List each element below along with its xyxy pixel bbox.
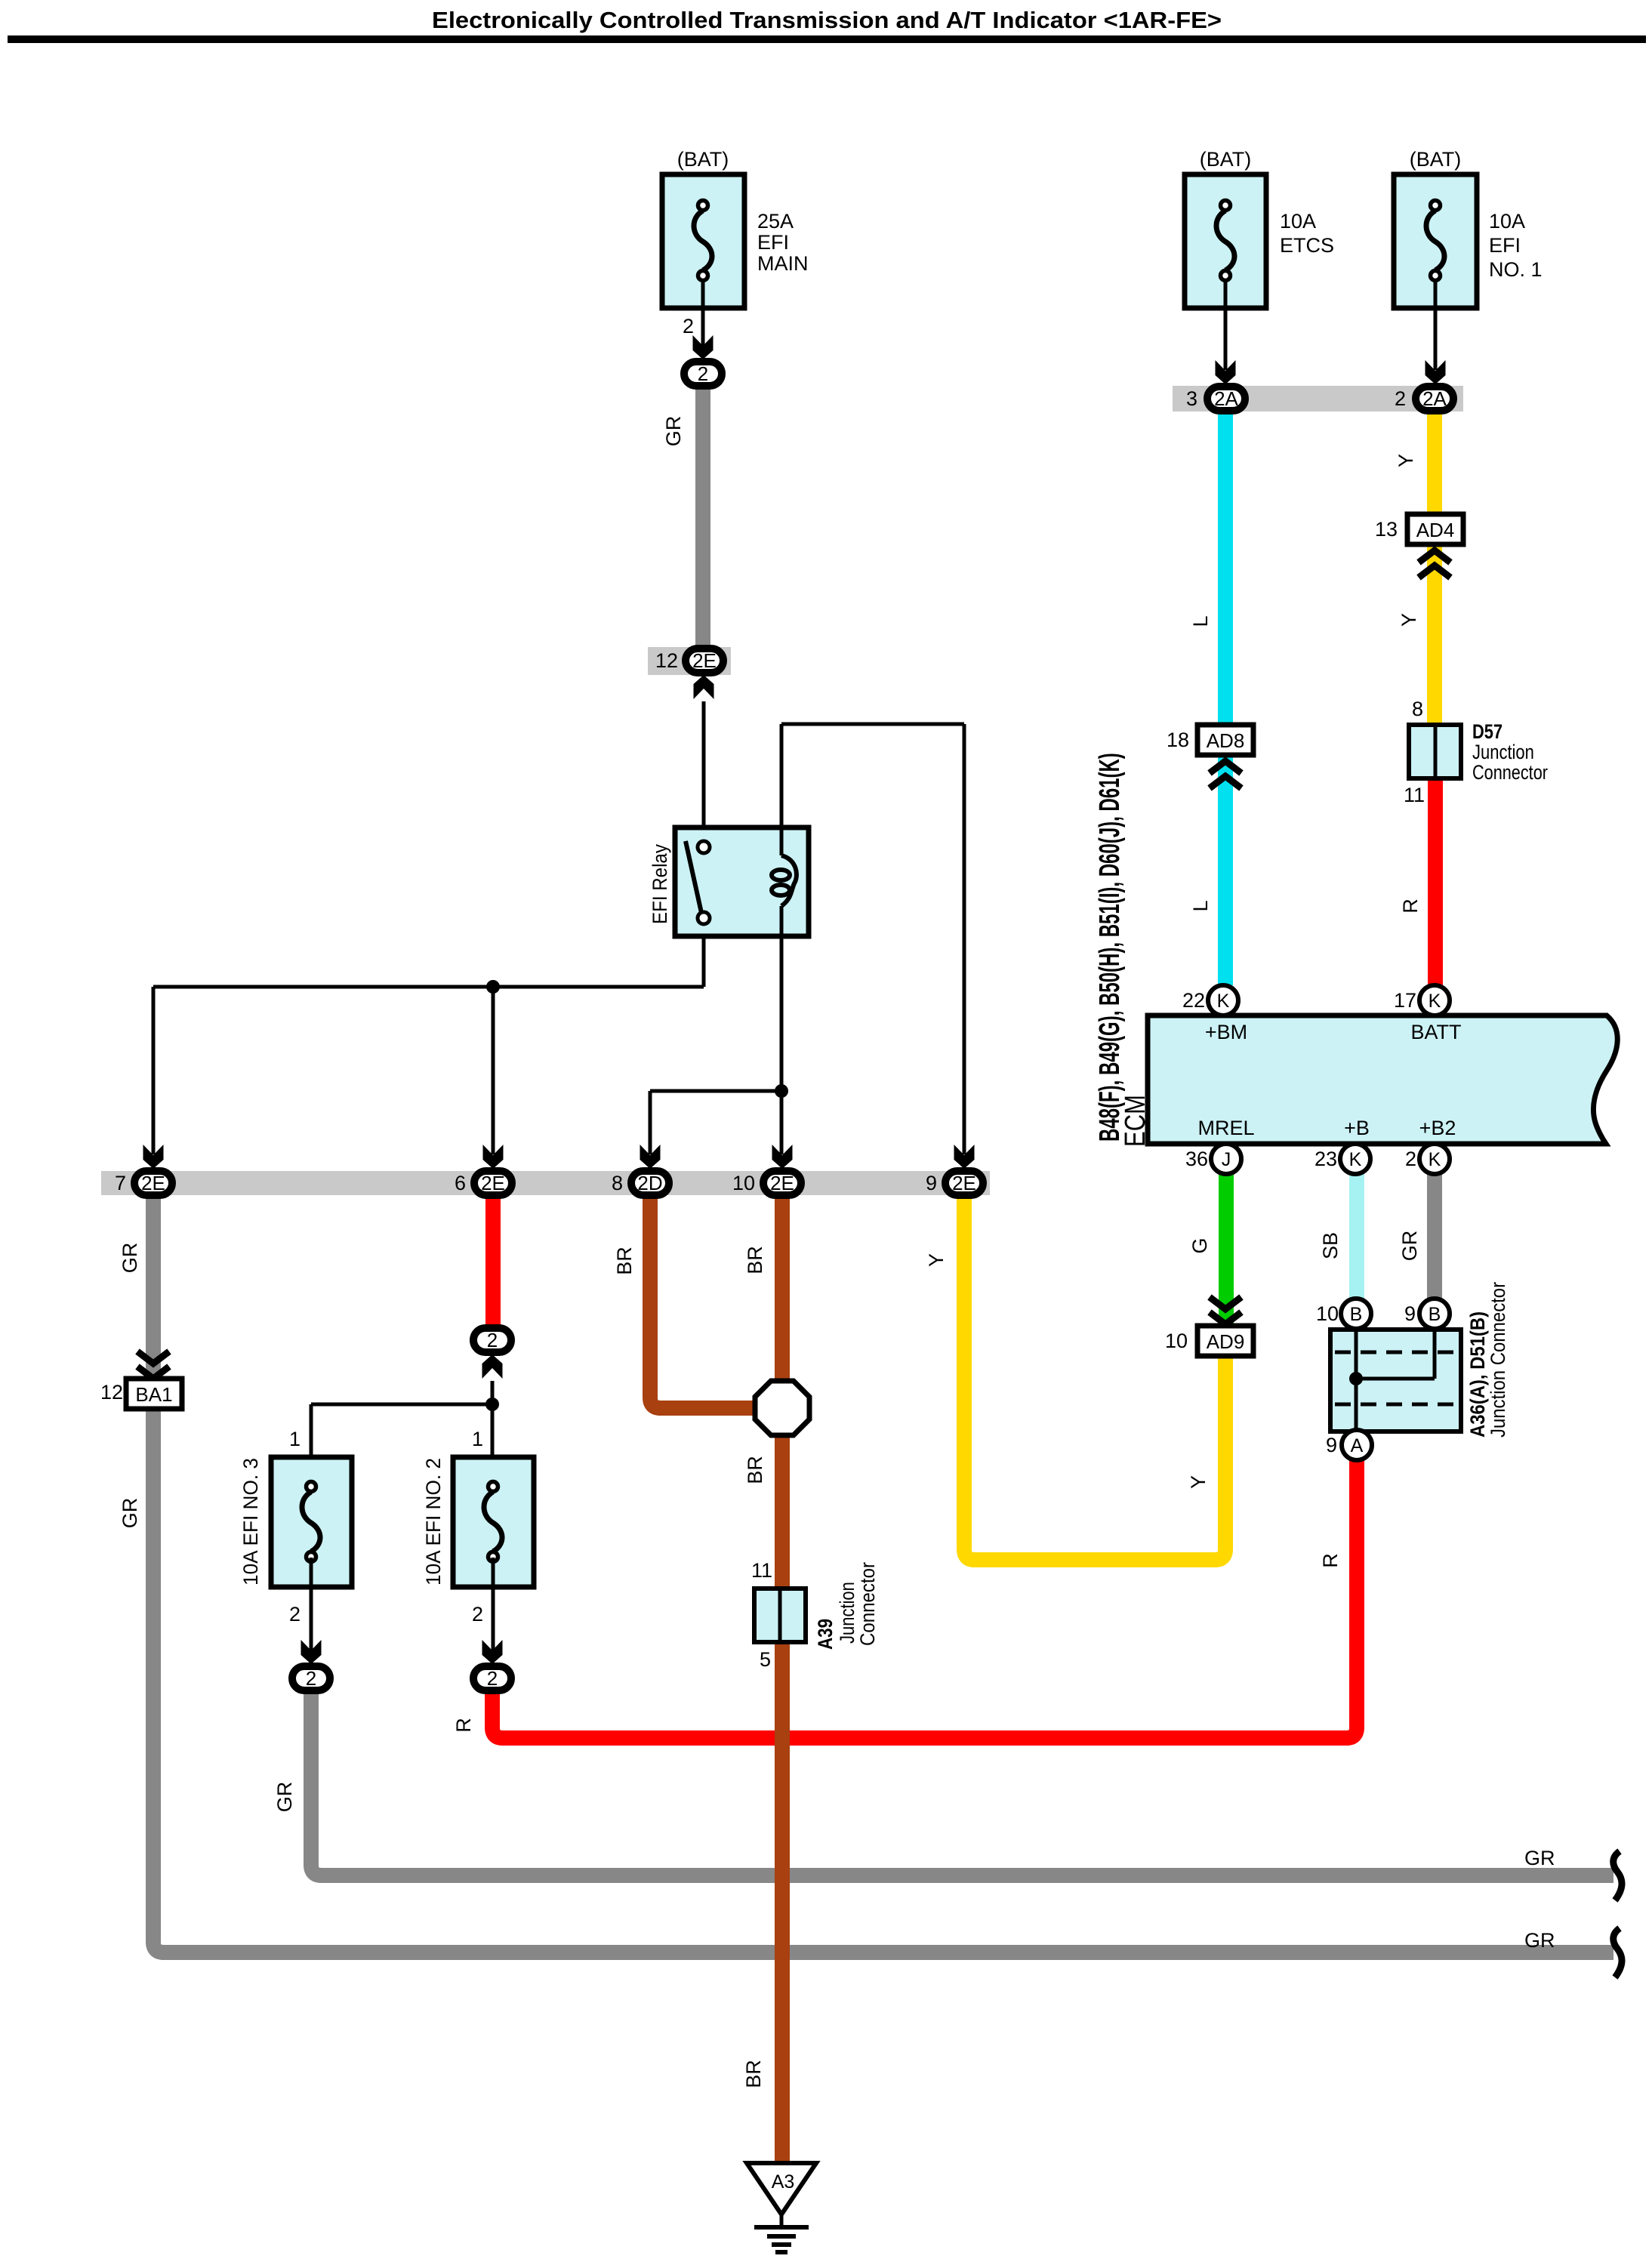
wire SB from ECM +B to junction B10 — [1349, 1174, 1364, 1299]
svg-text:Junction: Junction — [1472, 741, 1534, 764]
svg-text:NO. 1: NO. 1 — [1489, 258, 1543, 281]
svg-text:10A EFI NO. 2: 10A EFI NO. 2 — [422, 1458, 445, 1585]
svg-text:A3: A3 — [772, 2171, 795, 2193]
connector 2 oval above EFI NO.2 — [473, 1328, 511, 1352]
svg-text:(BAT): (BAT) — [677, 148, 729, 171]
arrow into oval 2 NO.2 — [482, 1640, 503, 1664]
node junction fuse feed — [485, 1398, 499, 1411]
svg-text:Y: Y — [1187, 1475, 1210, 1489]
svg-text:2E: 2E — [481, 1172, 505, 1194]
chevron into AD8 — [1210, 761, 1241, 788]
svg-text:SB: SB — [1319, 1232, 1342, 1259]
svg-text:10A: 10A — [1489, 210, 1525, 233]
svg-text:GR: GR — [119, 1243, 141, 1274]
svg-text:9: 9 — [1404, 1302, 1416, 1325]
EFI Relay — [649, 827, 809, 936]
connector 12 2E oval — [686, 649, 723, 673]
svg-text:11: 11 — [751, 1559, 772, 1582]
fuse 10A ETCS — [1185, 148, 1334, 308]
title — [8, 7, 1646, 43]
arrow into connector 2 — [693, 335, 714, 359]
svg-text:10A: 10A — [1280, 210, 1316, 233]
svg-text:BR: BR — [613, 1247, 636, 1275]
chevron into AD9 — [1210, 1297, 1241, 1324]
svg-text:R: R — [1399, 898, 1422, 914]
wire from fuse ETCS — [1224, 282, 1228, 370]
svg-text:BA1: BA1 — [135, 1383, 172, 1406]
svg-text:5: 5 — [760, 1648, 771, 1671]
wire R red from 2E pin 6 to fuse feed connector 2 — [485, 1198, 501, 1326]
svg-text:ETCS: ETCS — [1280, 234, 1334, 257]
wire L cyan from 2A pin 3 to ECM +BM — [1218, 414, 1233, 985]
svg-text:ECM: ECM — [1120, 1095, 1151, 1147]
svg-text:D57: D57 — [1472, 721, 1503, 744]
svg-text:AD8: AD8 — [1207, 729, 1245, 752]
wire from fuse EFI NO.1 — [1434, 282, 1438, 370]
ECM pin 23 K — [1340, 1144, 1370, 1174]
junction connector D57 — [1409, 725, 1461, 778]
gray connector band 2A (top right band) — [1173, 386, 1463, 411]
svg-text:MREL: MREL — [1197, 1117, 1254, 1139]
svg-text:BR: BR — [742, 2060, 765, 2088]
svg-text:R: R — [1319, 1553, 1342, 1568]
svg-text:2E: 2E — [141, 1172, 165, 1194]
wire BR from 2D pin 8 to octagon — [650, 1198, 755, 1408]
svg-text:13: 13 — [1375, 518, 1398, 541]
svg-text:2: 2 — [1395, 387, 1406, 410]
svg-text:2D: 2D — [637, 1172, 662, 1194]
wire top rail to 2E pin 9 — [781, 724, 964, 1154]
svg-text:2A: 2A — [1214, 387, 1238, 410]
svg-text:10A EFI NO. 3: 10A EFI NO. 3 — [239, 1458, 262, 1585]
connector pin 2 oval — [684, 362, 722, 386]
svg-text:GR: GR — [1398, 1231, 1421, 1262]
junction connector A36(A) D51(B) — [1330, 1330, 1461, 1431]
svg-text:Electronically Controlled Tran: Electronically Controlled Transmission a… — [432, 7, 1222, 33]
svg-text:+B2: +B2 — [1419, 1117, 1456, 1139]
chevron into BA1 — [137, 1351, 169, 1379]
svg-text:(BAT): (BAT) — [1410, 148, 1462, 171]
wire GR from BA1 to bottom right — [153, 1408, 1613, 1952]
octagon splice — [755, 1381, 809, 1435]
svg-text:AD9: AD9 — [1207, 1330, 1245, 1353]
wire BR from octagon to ground A3 — [775, 1435, 790, 2161]
wire from relay switch to left rail — [153, 936, 704, 987]
chevron into AD4 — [1419, 550, 1450, 578]
svg-text:BR: BR — [744, 1246, 766, 1274]
svg-text:(BAT): (BAT) — [1200, 148, 1252, 171]
svg-text:+BM: +BM — [1205, 1021, 1247, 1043]
svg-text:22: 22 — [1182, 989, 1205, 1012]
svg-text:8: 8 — [612, 1172, 623, 1194]
arrow into 2A pin 3 — [1216, 360, 1236, 384]
svg-text:G: G — [1188, 1237, 1211, 1253]
svg-text:1: 1 — [289, 1428, 301, 1450]
svg-text:K: K — [1429, 1149, 1441, 1170]
svg-text:Y: Y — [925, 1253, 948, 1267]
wire R red from fuse EFI NO.2 output to junction A36 pin A9 — [492, 1460, 1357, 1738]
svg-text:2E: 2E — [952, 1172, 976, 1194]
ground A3 — [747, 2163, 816, 2252]
arrow into 2A pin 2 — [1425, 360, 1446, 384]
svg-text:B: B — [1429, 1304, 1441, 1325]
wire junction to 2E pin 6 — [492, 987, 495, 1154]
arrow up into connector 2 — [482, 1354, 503, 1379]
arrow into 2E pin 6 — [483, 1145, 504, 1169]
arrow up into 12 2E — [694, 675, 714, 699]
svg-text:2: 2 — [306, 1667, 316, 1690]
wire GR from ECM +B2 to junction B9 — [1427, 1174, 1442, 1299]
wire GR from fuse EFI NO.3 output to bottom right — [311, 1692, 1613, 1875]
svg-text:2A: 2A — [1422, 387, 1447, 410]
svg-text:18: 18 — [1167, 729, 1189, 751]
node junction coil branch — [775, 1084, 788, 1098]
ECM pin 2 K — [1419, 1144, 1450, 1174]
svg-text:10: 10 — [1316, 1302, 1339, 1325]
svg-text:A36(A), D51(B): A36(A), D51(B) — [1467, 1311, 1490, 1438]
junction pin B9 — [1419, 1299, 1450, 1329]
svg-text:GR: GR — [662, 416, 685, 447]
svg-text:A: A — [1351, 1435, 1364, 1456]
svg-text:B48(F), B49(G), B50(H), B51(I): B48(F), B49(G), B50(H), B51(I), D60(J), … — [1093, 753, 1125, 1142]
svg-text:K: K — [1349, 1149, 1362, 1170]
svg-text:17: 17 — [1394, 989, 1416, 1012]
svg-text:11: 11 — [1404, 784, 1425, 806]
squiggle break lower gray wire — [1613, 1928, 1622, 1977]
svg-text:9: 9 — [926, 1172, 937, 1194]
wire G green from ECM MREL to AD9 — [1219, 1174, 1234, 1326]
connector 2A pin 2 oval — [1416, 387, 1453, 411]
svg-text:MAIN: MAIN — [757, 252, 809, 275]
svg-text:36: 36 — [1185, 1148, 1208, 1170]
svg-text:6: 6 — [455, 1172, 466, 1194]
svg-text:7: 7 — [115, 1172, 126, 1194]
svg-text:+B: +B — [1344, 1117, 1370, 1139]
wire Y yellow from 2E pin 9 to AD9 — [964, 1198, 1225, 1560]
svg-text:BR: BR — [744, 1456, 766, 1484]
svg-text:12: 12 — [655, 649, 678, 672]
wire from fuses to connector 2 — [311, 1381, 492, 1485]
svg-text:2: 2 — [472, 1603, 483, 1626]
svg-text:K: K — [1429, 991, 1441, 1012]
arrow into oval 2 NO.3 — [301, 1640, 322, 1664]
squiggle break upper gray wire — [1613, 1851, 1622, 1900]
arrow into 2D pin 8 — [640, 1145, 661, 1169]
svg-text:R: R — [452, 1718, 475, 1733]
svg-text:Connector: Connector — [1472, 762, 1548, 784]
svg-text:2E: 2E — [692, 649, 717, 672]
svg-text:EFI Relay: EFI Relay — [649, 844, 672, 924]
ECM — [1148, 1015, 1617, 1144]
connector 2E pin 9 oval — [945, 1171, 983, 1195]
wire R red from D57 to ECM BATT — [1428, 778, 1443, 985]
svg-text:B: B — [1350, 1304, 1363, 1325]
svg-text:GR: GR — [273, 1782, 296, 1813]
wire from fuse NO.2 pin 2 — [492, 1558, 495, 1650]
svg-text:2: 2 — [683, 315, 694, 337]
ECM pin 22 K — [1208, 985, 1238, 1015]
svg-text:2: 2 — [289, 1603, 301, 1626]
svg-text:2: 2 — [698, 362, 708, 385]
wire left rail to 2E pin 7 — [152, 987, 156, 1154]
connector 2 oval below NO.3 — [292, 1666, 330, 1690]
svg-text:Junction Connector: Junction Connector — [1487, 1281, 1510, 1438]
svg-text:2E: 2E — [770, 1172, 794, 1194]
connector 2E pin 7 oval — [134, 1171, 172, 1195]
node junction left rail — [486, 980, 500, 994]
wire from fuse EFI MAIN pin 2 — [701, 282, 705, 346]
connector 12 BA1 — [126, 1379, 182, 1409]
svg-text:BATT: BATT — [1411, 1021, 1462, 1043]
ECM pin 36 J — [1211, 1144, 1241, 1174]
svg-text:Connector: Connector — [857, 1562, 880, 1646]
arrow into 2E pin 10 — [772, 1145, 793, 1169]
fuse 10A EFI NO. 3 — [239, 1457, 352, 1587]
svg-text:AD4: AD4 — [1416, 519, 1455, 541]
wire GR from 2E pin 7 to BA1 — [146, 1198, 161, 1379]
svg-text:10: 10 — [732, 1172, 755, 1194]
svg-text:Y: Y — [1398, 613, 1420, 627]
connector 18 AD8 — [1197, 725, 1253, 755]
svg-text:J: J — [1222, 1149, 1231, 1170]
fuse 10A EFI NO. 2 — [422, 1457, 534, 1587]
svg-text:23: 23 — [1315, 1148, 1337, 1170]
wire Y yellow from 2A pin 2 to D57 — [1427, 414, 1442, 725]
svg-text:GR: GR — [119, 1498, 141, 1529]
svg-text:10: 10 — [1165, 1330, 1188, 1352]
svg-text:8: 8 — [1412, 698, 1423, 720]
svg-text:K: K — [1217, 991, 1230, 1012]
connector 13 AD4 — [1407, 514, 1463, 544]
wire BR from 2E pin 10 to octagon — [775, 1198, 790, 1381]
svg-text:EFI: EFI — [1489, 234, 1521, 257]
svg-text:2: 2 — [1405, 1148, 1416, 1170]
wire from fuse NO.3 pin 2 — [310, 1558, 313, 1650]
svg-text:L: L — [1189, 900, 1212, 911]
svg-text:2: 2 — [487, 1329, 498, 1351]
svg-text:12: 12 — [100, 1381, 123, 1404]
wire from relay coil bottom — [780, 906, 784, 1091]
connector 2A pin 3 oval — [1207, 387, 1245, 411]
svg-text:EFI: EFI — [757, 231, 789, 254]
gray background of connector 12 2E — [648, 647, 731, 675]
svg-text:A39: A39 — [815, 1619, 837, 1650]
gray connector band 2E/2D (bottom band) — [101, 1171, 990, 1195]
fuse 25A EFI MAIN — [662, 148, 809, 308]
junction pin A9 — [1342, 1430, 1372, 1460]
svg-text:GR: GR — [1524, 1847, 1555, 1869]
junction pin B10 — [1341, 1299, 1371, 1329]
wire branch to 2D pin 8 — [650, 1091, 781, 1154]
svg-text:1: 1 — [472, 1428, 483, 1450]
svg-text:L: L — [1189, 615, 1212, 627]
connector 10 AD9 — [1197, 1326, 1253, 1356]
connector 2 oval below NO.2 — [473, 1666, 511, 1690]
arrow into 2E pin 9 — [954, 1145, 975, 1169]
ECM pin 17 K — [1419, 985, 1450, 1015]
connector 2D pin 8 oval — [631, 1171, 669, 1195]
svg-text:9: 9 — [1326, 1434, 1337, 1456]
junction connector A39 — [754, 1589, 806, 1642]
svg-text:2: 2 — [487, 1667, 498, 1690]
fuse 10A EFI NO. 1 — [1394, 148, 1543, 308]
connector 2E pin 10 oval — [763, 1171, 801, 1195]
connector 2E pin 6 oval — [474, 1171, 512, 1195]
wire junction to 2E pin 10 — [780, 1091, 784, 1154]
svg-text:Y: Y — [1395, 454, 1417, 467]
wire GR from fuse EFI MAIN to 2E — [695, 387, 710, 646]
svg-text:25A: 25A — [757, 210, 794, 233]
svg-text:3: 3 — [1186, 387, 1197, 410]
svg-text:GR: GR — [1524, 1929, 1555, 1952]
wire from relay to 12 2E — [702, 701, 706, 827]
arrow into 2E pin 7 — [143, 1145, 164, 1169]
svg-text:Junction: Junction — [837, 1582, 859, 1644]
wire from relay coil to top rail — [780, 724, 784, 855]
